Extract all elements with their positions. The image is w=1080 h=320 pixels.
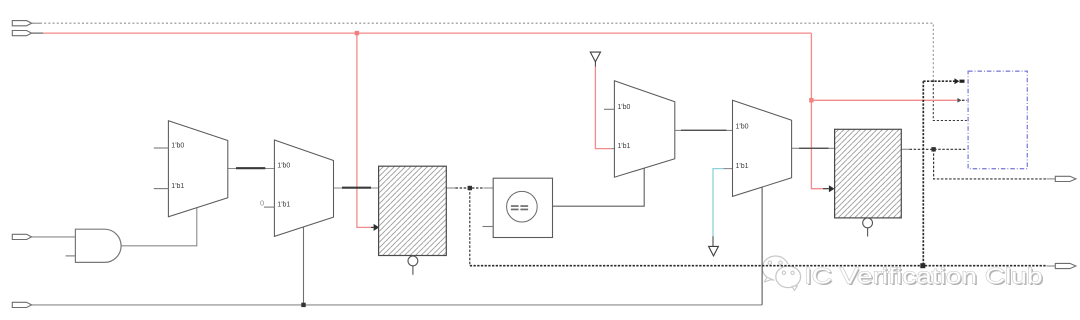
svg-text:1'b0: 1'b0 bbox=[736, 124, 749, 131]
svg-text:1'b0: 1'b0 bbox=[277, 162, 290, 169]
svg-text:1'b0: 1'b0 bbox=[617, 104, 630, 111]
register R2 bbox=[835, 129, 902, 236]
wire mux M2 select bbox=[303, 227, 305, 305]
wire red branch down to register R1 clock bbox=[357, 33, 371, 227]
input port D (select net) bbox=[12, 302, 31, 307]
wire bold dashed into hierarchical block bbox=[923, 80, 954, 82]
junction at (303,305) bbox=[301, 303, 305, 307]
junction at (934,149) bbox=[931, 147, 935, 151]
comparator EQ bbox=[483, 178, 553, 237]
wire bold dashed dout net to output port Y2 bbox=[470, 265, 1047, 267]
svg-text:1'b0: 1'b0 bbox=[171, 143, 184, 150]
watermark WeChat icon bbox=[762, 256, 788, 280]
input port A (clk, dotted net) bbox=[12, 21, 31, 26]
AND gate G1 bbox=[66, 229, 122, 262]
svg-text:1'b1: 1'b1 bbox=[736, 163, 749, 170]
wire register R1 Q to comparator bbox=[446, 187, 455, 189]
wire mux M4 out to register R2 bbox=[792, 147, 835, 149]
mux M4 bbox=[733, 100, 792, 196]
wire mux M2 out to register R1 bbox=[334, 187, 379, 189]
wire red into hierarchical block bbox=[811, 99, 957, 101]
ground triangle T2 (below mux M4) bbox=[709, 246, 719, 256]
wire red from power triangle T1 to mux M3 in1 bbox=[594, 62, 596, 67]
wire dashed down from junction to dout net bbox=[469, 188, 471, 266]
arrowhead R1 clock bbox=[374, 224, 380, 231]
wire red branch down to register R2 clock bbox=[811, 33, 823, 189]
wire mux M1 out to mux M2 in0 bbox=[228, 168, 275, 170]
svg-text:1'b1: 1'b1 bbox=[617, 143, 630, 150]
wire cyan net from mux M4 in1 to ground bbox=[723, 168, 732, 170]
wire comparator out to mux M3 select bbox=[553, 168, 645, 206]
input port C (AND input) bbox=[12, 234, 31, 239]
wire mux M3 out to mux M4 in0 bbox=[675, 129, 733, 131]
arrowhead R2 clock bbox=[829, 185, 835, 192]
input port B (red net) bbox=[12, 31, 31, 36]
wire bold dashed vertical up to hierarchical block bbox=[922, 81, 924, 266]
wire port C to AND gate bbox=[32, 236, 76, 238]
output port Y1 bbox=[1055, 176, 1076, 181]
wire dashed branch to output port Y1 bbox=[934, 149, 1047, 179]
junction red at (811,100) bbox=[809, 98, 813, 102]
junction at (923,266) bbox=[920, 263, 925, 268]
mux M2 bbox=[260, 140, 334, 236]
wire red net trunk from port B bbox=[32, 32, 43, 34]
power triangle T1 (above mux M3) bbox=[590, 52, 600, 62]
wire register R2 Q to hierarchical block bbox=[901, 148, 909, 150]
register R1 bbox=[379, 166, 447, 275]
wire select net from port D bbox=[32, 304, 763, 306]
wire AND output to mux M1 select bbox=[121, 208, 197, 246]
junction at (470,188) bbox=[468, 186, 472, 190]
junction red at (357,33) bbox=[355, 31, 359, 35]
svg-text:0: 0 bbox=[260, 199, 264, 208]
wire mux M4 select bbox=[761, 187, 763, 305]
svg-text:1'b1: 1'b1 bbox=[171, 183, 184, 190]
wire dotted clk net from port A bbox=[32, 22, 40, 24]
mux M1 bbox=[154, 121, 228, 217]
svg-text:1'b1: 1'b1 bbox=[277, 202, 290, 209]
hierarchical block (blue dashed) bbox=[968, 71, 1027, 169]
mux M3 bbox=[604, 81, 675, 177]
output port Y2 bbox=[1055, 263, 1076, 268]
